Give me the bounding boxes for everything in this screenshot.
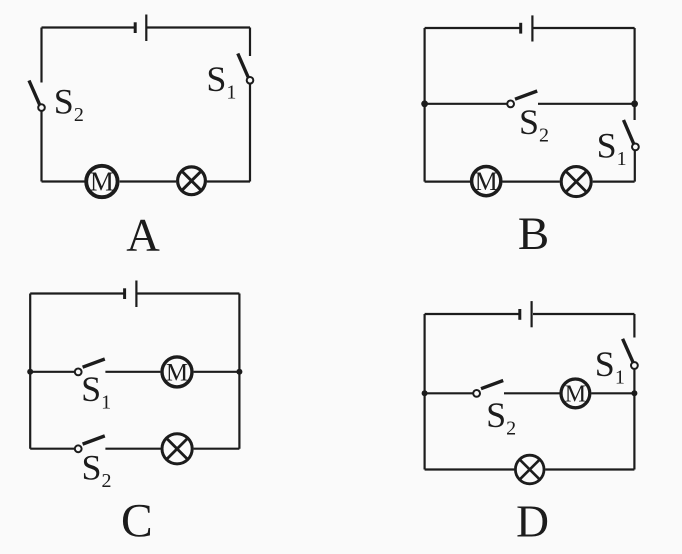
- svg-text:B: B: [518, 208, 549, 260]
- wire: A left vertical (switch S2 down to bottom corner): [40, 111, 42, 181]
- wire: D left vertical (top corner to bottom corner): [424, 314, 426, 470]
- wire: B top-right segment (battery to corner): [533, 27, 634, 29]
- wire: B top-left segment (corner to battery): [425, 27, 520, 29]
- wire: D right vertical (middle node down to bottom corner): [633, 393, 635, 469]
- battery (circuit C): long positive plate: [135, 281, 137, 308]
- svg-text:D: D: [516, 496, 549, 547]
- battery (circuit D): short negative plate: [518, 309, 521, 320]
- wire: B bottom segment (motor to lamp): [503, 181, 560, 183]
- wire: B left vertical (top corner to bottom corner): [424, 28, 426, 182]
- svg-text:C: C: [121, 495, 153, 547]
- motor M (circuit D): circle: [561, 379, 590, 408]
- lamp (circuit D): circle: [515, 455, 544, 484]
- lamp (circuit A): circle: [178, 167, 206, 195]
- switch S1 (circuit C): lever: [83, 359, 105, 367]
- svg-text:M: M: [565, 382, 586, 408]
- wire: C right vertical (top corner to bottom corner): [238, 294, 240, 449]
- switch S1 (circuit A): pivot contact circle: [247, 77, 254, 84]
- svg-text:A: A: [126, 210, 160, 261]
- wire: C left vertical (top corner to bottom corner): [29, 294, 31, 449]
- wire: C bottom segment (left corner to switch S2): [30, 448, 74, 450]
- switch S2 (circuit D): lever: [481, 381, 503, 389]
- switch S1 (circuit B): lever: [624, 120, 634, 144]
- battery (circuit C): short negative plate: [123, 288, 126, 299]
- lamp (circuit B): cross stroke 1: [566, 171, 587, 192]
- wire: A bottom segment (left corner to motor): [42, 180, 85, 182]
- motor M (circuit A): circle: [86, 166, 117, 197]
- wire: D middle segment (left node to switch S2): [425, 392, 474, 394]
- junction dot: D middle-right node: [631, 390, 637, 396]
- switch S2 (circuit C): lever: [83, 436, 105, 444]
- wire: A top-right segment (battery to corner): [147, 26, 250, 28]
- motor M (circuit C): circle: [162, 357, 192, 387]
- wire: C bottom segment (lamp to right corner): [194, 448, 240, 450]
- wire: C top-left segment (corner to battery): [30, 292, 123, 294]
- wire: D bottom segment (lamp to right corner): [545, 468, 634, 470]
- svg-text:S2: S2: [486, 395, 516, 440]
- wire: C top-right segment (battery to corner): [138, 292, 240, 294]
- wire: B middle segment (left node to switch S2): [425, 103, 508, 105]
- svg-text:M: M: [166, 359, 188, 386]
- battery (circuit B): long positive plate: [531, 15, 533, 41]
- svg-text:S1: S1: [597, 126, 627, 171]
- svg-text:S1: S1: [595, 344, 625, 389]
- wire: C middle segment (motor to right node): [194, 371, 240, 373]
- svg-text:S2: S2: [54, 82, 84, 127]
- battery (circuit A): long positive plate: [145, 15, 147, 42]
- switch S2 (circuit A): lever: [29, 81, 40, 105]
- wire: D top-left segment (corner to battery): [425, 313, 519, 315]
- wire: B right vertical (middle node down to switch S1): [633, 104, 635, 120]
- motor M (circuit B): circle: [472, 167, 501, 196]
- wire: B right vertical (top corner down to middle node): [633, 28, 635, 104]
- wire: C middle segment (left node to switch S1): [30, 371, 74, 373]
- switch S2 (circuit A): pivot contact circle: [38, 104, 45, 111]
- switch S1 (circuit D): lever: [623, 339, 634, 363]
- battery (circuit B): short negative plate: [519, 23, 522, 34]
- wire: B right vertical (switch S1 to bottom corner): [634, 150, 636, 181]
- wire: C bottom segment (switch S2 to lamp): [105, 448, 160, 450]
- battery (circuit A): short negative plate: [134, 22, 137, 33]
- wire: B bottom segment (lamp to right corner): [593, 181, 635, 183]
- switch S2 (circuit D): pivot contact circle: [473, 390, 480, 397]
- lamp (circuit A): cross stroke 1: [182, 171, 202, 191]
- wire: C middle segment (switch S1 to motor): [105, 371, 160, 373]
- lamp (circuit B): cross stroke 2: [566, 171, 587, 192]
- lamp (circuit C): cross stroke 2: [166, 438, 187, 459]
- wire: A left vertical (corner down to switch S2): [40, 28, 42, 83]
- wire: D bottom segment (left corner to lamp): [425, 468, 515, 470]
- junction dot: B middle-left node: [421, 100, 428, 107]
- junction dot: C middle-left node: [27, 369, 33, 375]
- wire: D right vertical (top corner down to switch S1): [633, 314, 635, 338]
- wire: D right vertical (switch S1 down to middle node): [633, 369, 635, 393]
- svg-text:S2: S2: [82, 448, 112, 493]
- switch S1 (circuit B): pivot contact circle: [632, 144, 639, 151]
- svg-text:S1: S1: [81, 369, 111, 414]
- lamp (circuit A): cross stroke 2: [182, 171, 202, 191]
- wire: B middle segment (switch S2 to right node): [538, 103, 635, 105]
- switch S1 (circuit A): lever: [238, 54, 249, 78]
- battery (circuit D): long positive plate: [530, 301, 532, 327]
- svg-text:M: M: [475, 167, 498, 196]
- lamp (circuit D): cross stroke 2: [520, 459, 540, 479]
- lamp (circuit D): cross stroke 1: [520, 459, 540, 479]
- svg-text:S2: S2: [519, 102, 549, 147]
- wire: B bottom segment (left corner to motor): [425, 181, 470, 183]
- wire: A right vertical (switch S1 down to bottom corner): [249, 84, 251, 182]
- junction dot: B middle-right node: [631, 100, 638, 107]
- wire: D middle segment (motor to right node): [591, 392, 634, 394]
- junction dot: C middle-right node: [236, 369, 242, 375]
- switch S1 (circuit C): pivot contact circle: [75, 369, 82, 376]
- wire: A bottom segment (motor to lamp): [120, 180, 177, 182]
- wire: A right vertical (top corner down to switch S1): [249, 28, 251, 57]
- wire: D middle segment (switch S2 to motor): [504, 392, 560, 394]
- switch S2 (circuit B): pivot contact circle: [507, 101, 514, 108]
- switch S1 (circuit D): pivot contact circle: [631, 362, 638, 369]
- lamp (circuit C): circle: [162, 434, 192, 464]
- switch S2 (circuit B): lever: [515, 91, 537, 99]
- junction dot: D middle-left node: [422, 390, 428, 396]
- lamp (circuit B): circle: [561, 167, 591, 197]
- wire: A top-left segment (corner to battery): [42, 26, 135, 28]
- switch S2 (circuit C): pivot contact circle: [75, 445, 82, 452]
- svg-text:S1: S1: [206, 59, 236, 104]
- wire: D top-right segment (battery to corner): [533, 313, 634, 315]
- svg-text:M: M: [90, 167, 114, 197]
- lamp (circuit C): cross stroke 1: [166, 438, 187, 459]
- wire: A bottom segment (lamp to right corner): [207, 180, 250, 182]
